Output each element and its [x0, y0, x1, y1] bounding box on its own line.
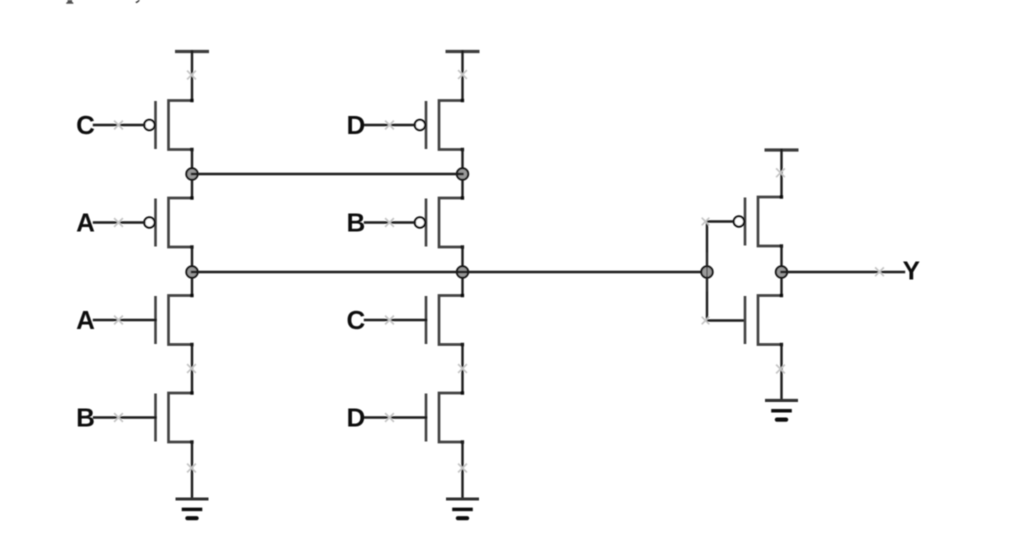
- node inverter output: [776, 266, 787, 277]
- svg-text:Y: Y: [903, 255, 920, 285]
- nmos M4 (gate B): [156, 391, 194, 443]
- wire M7 source to M8 drain: [461, 345, 463, 394]
- wire M6 drain to M7 drain (output net): [461, 247, 463, 296]
- wire input D to M5 gate: [365, 124, 415, 126]
- svg-text:B: B: [347, 208, 366, 238]
- wire riser through input node: [706, 253, 708, 291]
- wire input D to M8 gate: [365, 416, 426, 418]
- VDD symbol (middle branch): [446, 50, 480, 53]
- wire inverter input riser: [707, 222, 745, 321]
- pmos M9 (inverter pull-up): [734, 195, 783, 247]
- pmos M1 (gate C): [144, 99, 193, 151]
- wire input C to M1 gate: [94, 124, 144, 126]
- nmos M3 (gate A): [156, 294, 194, 346]
- wire VDD to M9 source: [780, 150, 782, 197]
- wire M3 source to M4 drain: [191, 345, 193, 394]
- nmos M8 (gate D): [426, 391, 464, 443]
- wire VDD to M1 source: [191, 52, 193, 101]
- node N1 (middle): [457, 168, 468, 179]
- wire input B to M4 gate: [94, 416, 156, 418]
- wire input B to M6 gate: [365, 221, 415, 223]
- wire net N1: M1 drain to M5 drain: [192, 173, 463, 175]
- svg-text:A: A: [76, 208, 95, 238]
- svg-text:C: C: [76, 110, 95, 140]
- wire output net to inverter input: [192, 271, 707, 273]
- wire M1 drain to M2 source (node N1): [191, 150, 193, 199]
- node inverter input: [701, 266, 712, 277]
- svg-text:B: B: [76, 403, 95, 433]
- ground symbol (middle branch): [446, 497, 479, 500]
- svg-text:C: C: [347, 305, 366, 335]
- wire node Y to output pin: [782, 271, 905, 273]
- svg-text:D: D: [347, 403, 366, 433]
- node N2 output (middle): [457, 266, 468, 277]
- VDD symbol (inverter): [765, 148, 799, 151]
- svg-text:D: D: [347, 110, 366, 140]
- ground symbol (left branch): [176, 497, 209, 500]
- nmos M7 (gate C): [426, 294, 464, 346]
- wire M4 source to ground: [191, 442, 193, 499]
- pmos M6 (gate B): [415, 196, 464, 248]
- wire input A to M3 gate: [94, 319, 156, 321]
- wire M10 source to ground: [780, 345, 782, 401]
- pmos M2 (gate A): [144, 196, 193, 248]
- ground symbol (inverter): [765, 399, 798, 402]
- wire input A to M2 gate: [94, 221, 144, 223]
- node N1 (left): [186, 168, 197, 179]
- node N2 output (left): [186, 266, 197, 277]
- wire M2 drain to M3 drain (output net): [191, 247, 193, 296]
- VDD symbol (left branch): [175, 50, 209, 53]
- nmos M10 (inverter pull-down): [745, 294, 783, 346]
- wire VDD to M5 source: [461, 52, 463, 101]
- wire M5 drain to M6 source (node N1): [461, 150, 463, 199]
- svg-text:A: A: [76, 305, 95, 335]
- wire M8 source to ground: [461, 442, 463, 499]
- pmos M5 (gate D): [415, 99, 464, 151]
- wire input C to M7 gate: [365, 319, 426, 321]
- wire M9 drain to M10 drain (node Y): [780, 246, 782, 296]
